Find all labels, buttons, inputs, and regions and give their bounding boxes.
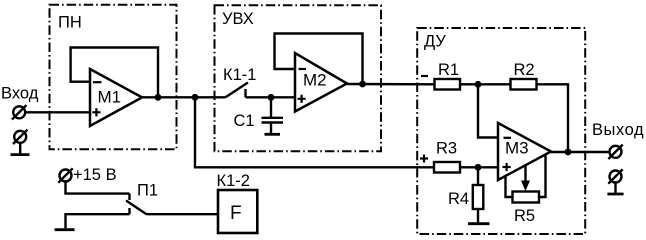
wire R2 to output node [537, 84, 569, 152]
wire +15V to П1 upper contact [66, 182, 130, 194]
svg-text:М3: М3 [505, 139, 529, 158]
wire M1 output row [142, 96, 226, 98]
svg-text:М1: М1 [98, 88, 122, 107]
svg-text:F: F [230, 203, 242, 224]
capacitor C1 [234, 97, 284, 133]
resistor R1 [435, 61, 461, 90]
node R1/R2 junction [475, 81, 482, 88]
svg-text:К1-2: К1-2 [217, 172, 250, 190]
output terminal (circle with slash) [608, 145, 622, 159]
svg-text:ПН: ПН [58, 14, 82, 32]
ground under R4 [468, 222, 490, 225]
switch K1-1 [223, 66, 256, 97]
resistor R2 [511, 61, 537, 90]
balance arrow of M3 [521, 164, 530, 191]
wire R3 to M3 + [460, 166, 498, 168]
node C1 junction [268, 94, 275, 101]
wire lower rail to ground [66, 214, 130, 228]
svg-text:УВХ: УВХ [222, 10, 254, 28]
wire M2 feedback loop [275, 34, 363, 85]
svg-text:П1: П1 [137, 182, 158, 200]
wire input to M1 + [25, 111, 90, 113]
wire M2 output to R1 [347, 83, 435, 86]
+15V terminal (circle with slash) [58, 168, 72, 182]
input terminal XS1 (circle with slash) [12, 105, 26, 119]
wire K1-1 to M2 + [246, 96, 296, 98]
svg-text:R4: R4 [448, 190, 469, 208]
svg-text:R3: R3 [436, 140, 457, 158]
block ДУ dashed box [417, 28, 585, 234]
input ground terminal (circle with slash and pin) [11, 130, 30, 155]
svg-text:С1: С1 [234, 112, 255, 130]
node M1 output / feedback junction [155, 94, 162, 101]
resistor R4 [448, 167, 483, 222]
wire branch node to R3 [195, 97, 434, 167]
svg-text:Вход: Вход [1, 85, 39, 103]
wire M3 output [551, 151, 610, 153]
svg-text:К1-1: К1-1 [223, 66, 256, 84]
svg-text:Выход: Выход [592, 121, 644, 139]
wire junction to M3 minus input [478, 84, 498, 137]
block ПН dashed box [50, 5, 177, 150]
relay coil F box K1-2 [217, 172, 258, 233]
label plus at ДУ input [420, 155, 428, 163]
svg-text:R5: R5 [514, 207, 535, 225]
block УВХ dashed box [215, 5, 382, 151]
ground under C1 [265, 133, 281, 136]
wire R1 to R2 [460, 83, 511, 85]
resistor R3 [434, 140, 460, 173]
node branch to ДУ + input [192, 94, 199, 101]
svg-text:R1: R1 [438, 61, 459, 79]
label minus at ДУ input [421, 75, 428, 77]
ground under П1 [55, 228, 75, 231]
node R3/R4 junction [475, 164, 482, 171]
svg-text:М2: М2 [303, 71, 327, 90]
op-amp M2 [295, 53, 347, 112]
wire П1 to relay coil F [147, 213, 219, 215]
wire M1 feedback loop [71, 48, 158, 98]
resistor R5 (balance potentiometer) [506, 155, 546, 226]
svg-text:R2: R2 [514, 61, 535, 79]
op-amp M1 [90, 69, 142, 126]
svg-text:ДУ: ДУ [424, 33, 446, 51]
svg-text:+15 В: +15 В [73, 166, 117, 184]
op-amp M3 [498, 123, 551, 180]
switch П1 [126, 182, 158, 215]
node M2 output junction [359, 81, 366, 88]
node output junction [565, 149, 572, 156]
output ground terminal (circle with slash and pin) [607, 169, 623, 194]
